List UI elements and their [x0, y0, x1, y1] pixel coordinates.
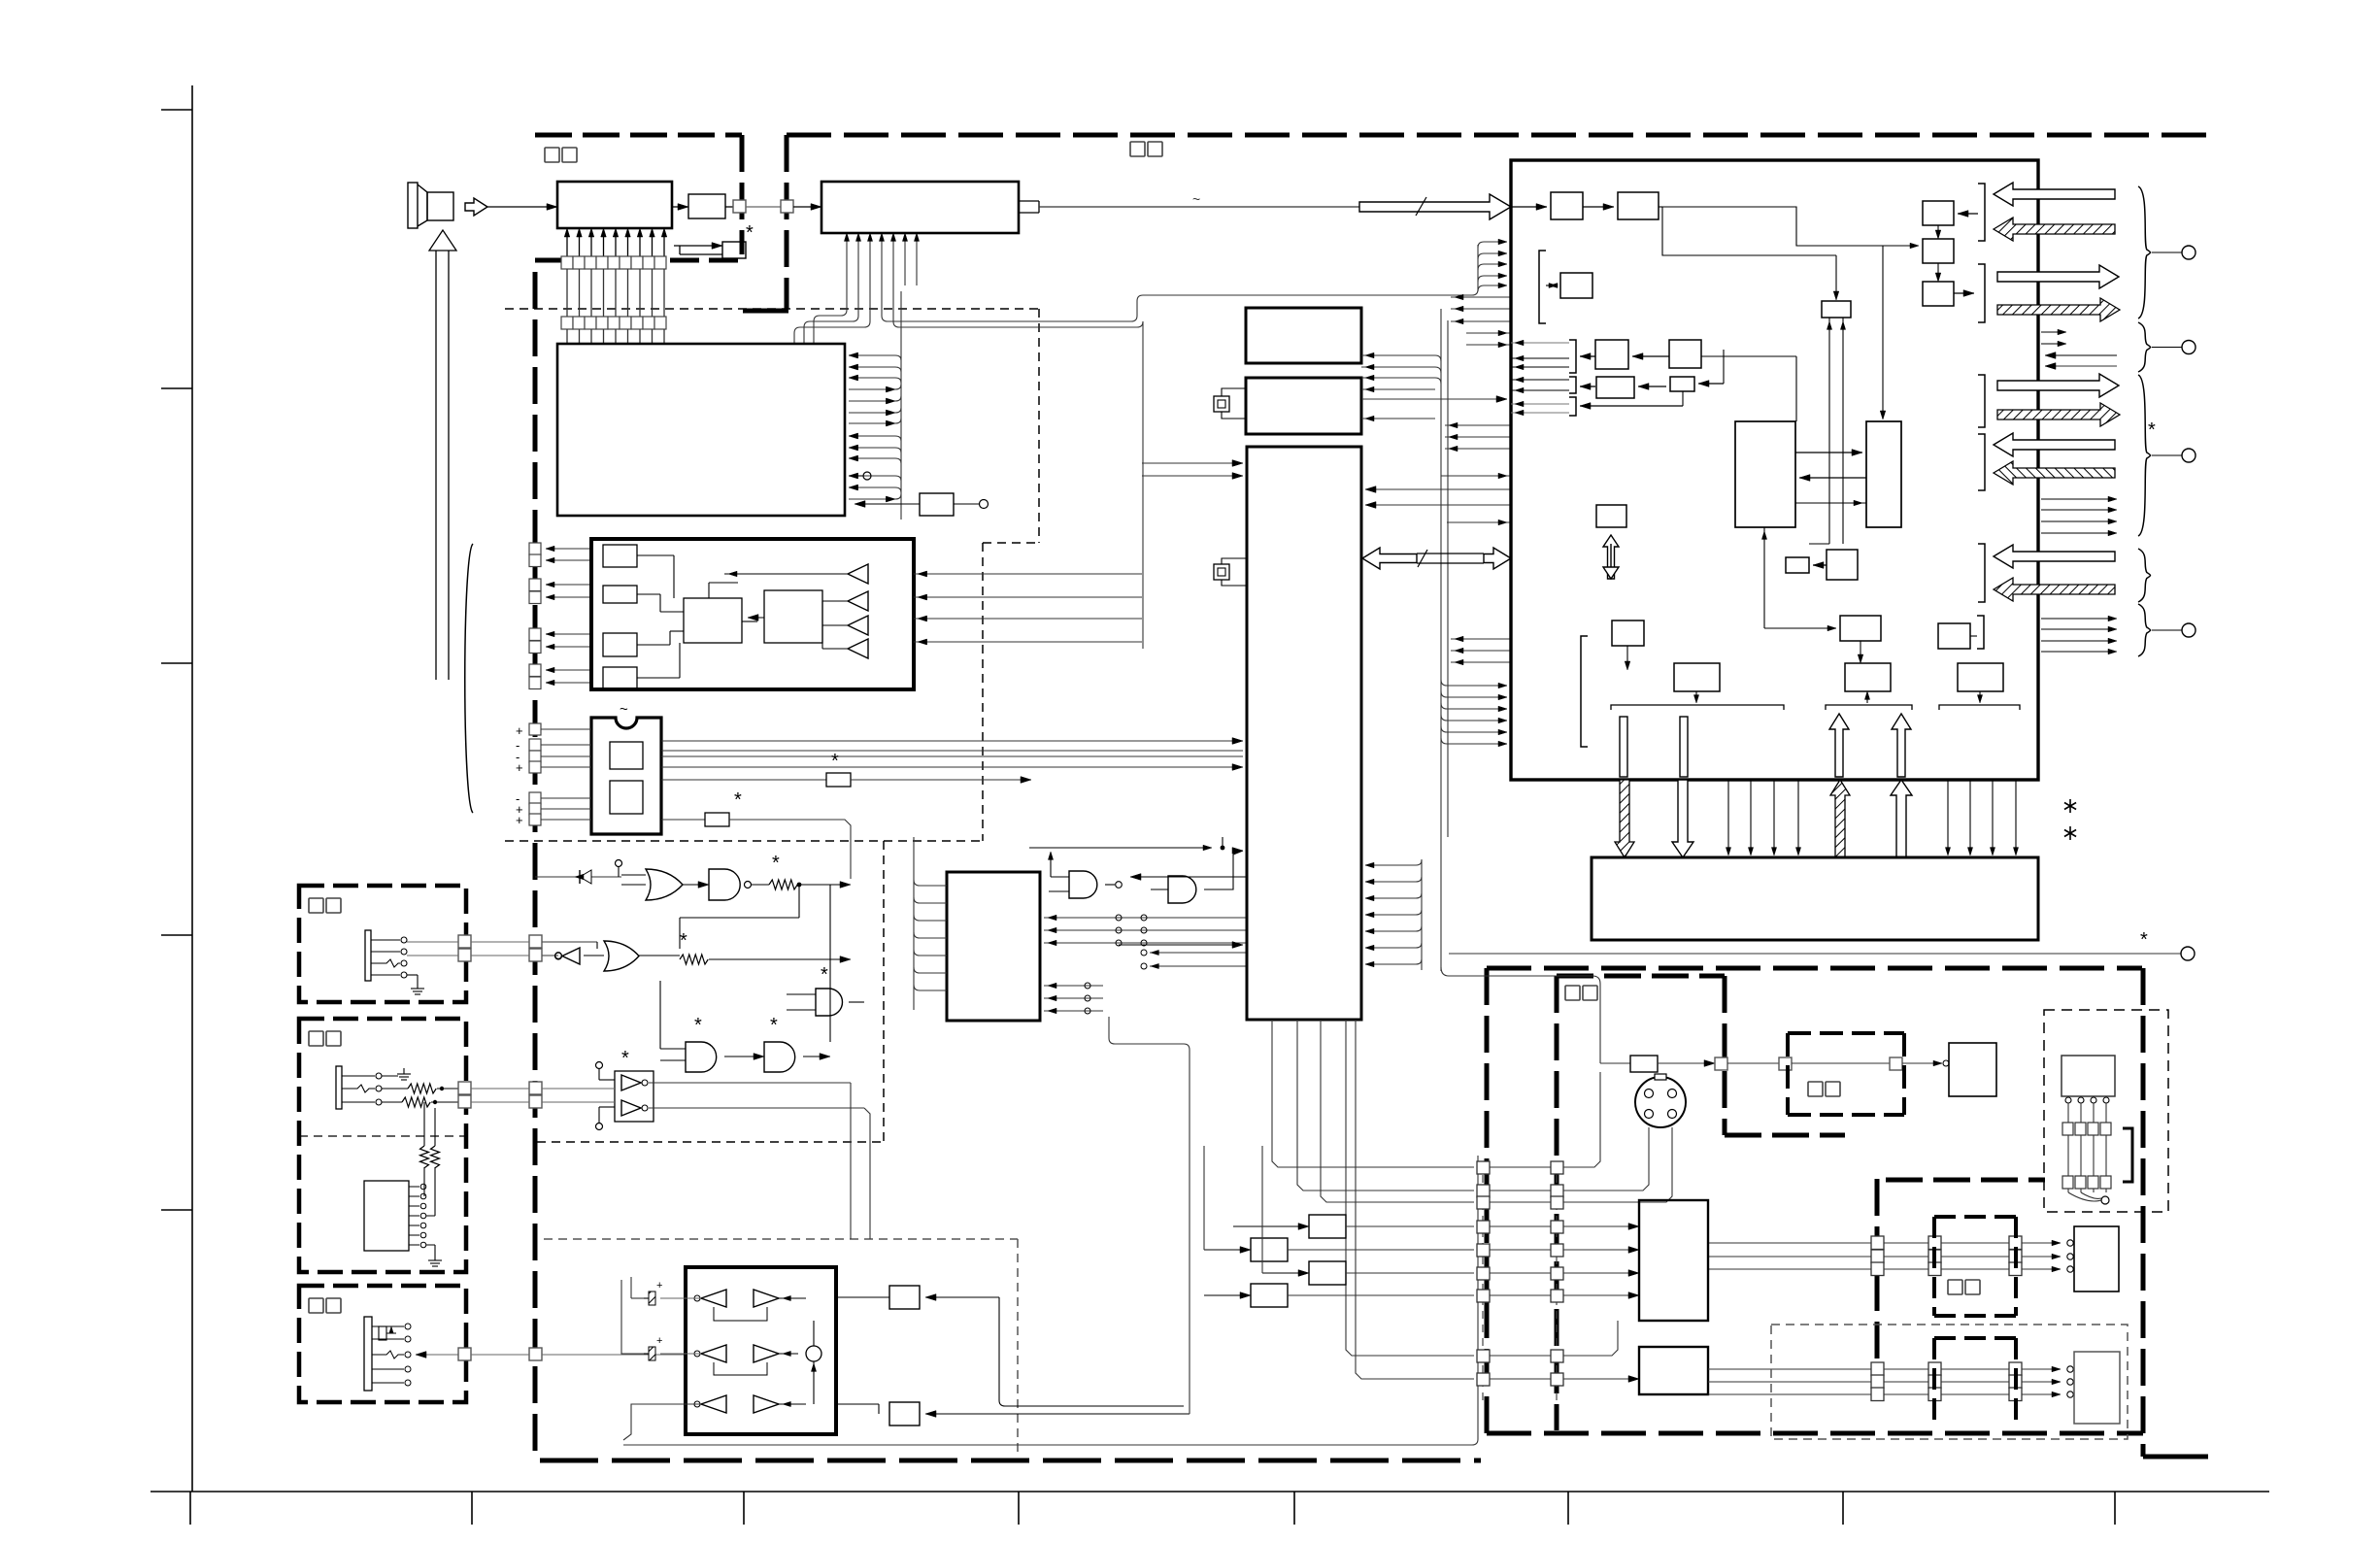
amp stage 1 [694, 1290, 806, 1321]
audio to DV wires [1204, 1146, 1262, 1273]
diode D1 [535, 870, 621, 884]
trap box [1670, 350, 1724, 406]
AV cable wires upper [1708, 1236, 2061, 1276]
connector CN10 [416, 1348, 686, 1360]
id box [1612, 621, 1644, 670]
label AV jack [309, 1031, 323, 1046]
DV in/out block [2067, 1226, 2119, 1291]
DV inner section boundary (dashed) [1557, 976, 2045, 1430]
monitor out wires [2041, 616, 2117, 654]
driver sub-box 3 [603, 633, 637, 656]
svg-text:*: * [694, 1015, 702, 1036]
audio in arrow [1994, 433, 2115, 456]
burst bracket [1511, 377, 1683, 416]
syscon auxiliary wires [1119, 874, 1247, 949]
servo sense wires from bus [914, 571, 1142, 645]
sync wires [1361, 386, 1507, 421]
IC5 EEPROM [591, 701, 661, 834]
S-terminal DIN connector [1635, 1074, 1686, 1127]
amp stage 2 [694, 1345, 798, 1375]
supply arrow up 2 [1892, 714, 1911, 777]
battery terminal block [2062, 1056, 2115, 1123]
CCD block boundary (dashed) [535, 135, 742, 260]
control box U1a [1923, 201, 1978, 239]
label DV section [1565, 986, 1580, 1000]
gate G9 AND [1126, 848, 1243, 903]
io bracket 2 [1978, 264, 1985, 322]
sync out wires [2041, 329, 2117, 369]
level shifter LS3 [1262, 1261, 1474, 1285]
battery sense wire [2068, 1128, 2132, 1204]
external monitor wire [1449, 929, 2195, 960]
encoder output wires [1361, 352, 1441, 384]
terminal group brace 2 [2138, 322, 2196, 372]
camera process dashed boundary [505, 309, 1039, 841]
video out arrow hatched [1997, 298, 2120, 321]
vco box [1669, 340, 1796, 421]
AV cable wires lower [1708, 1362, 2073, 1401]
pin slot 1 [1620, 717, 1627, 777]
memory bus hatched down arrow [1615, 780, 1634, 857]
gate G5 AND [660, 981, 764, 1072]
DV aux block [1639, 1347, 1708, 1394]
driver input buffer 1 [848, 564, 868, 584]
connector CN2 [781, 200, 793, 213]
resistor R6 [382, 1097, 458, 1107]
IC4 motor driver block [591, 539, 914, 689]
label mic jack [309, 898, 323, 913]
monitor block [1949, 1043, 1996, 1096]
camera control trunk lines [888, 239, 1507, 327]
gate G4 inverter [535, 948, 580, 964]
svg-text:~: ~ [1192, 191, 1200, 207]
input latch b1 [1511, 192, 1614, 219]
connector CN12 column [1551, 1161, 1563, 1403]
IC6a video encoder [1246, 308, 1361, 363]
terminal group brace 3 [2138, 375, 2196, 536]
IC8 audio DSP [947, 872, 1040, 1021]
audio dashed boundary [544, 1239, 1018, 1456]
memory bus open down arrow [1672, 780, 1693, 857]
memory bus open up arrow [1891, 780, 1912, 857]
osc box [1938, 616, 1984, 649]
latch M [1809, 301, 1851, 544]
resistor R4 [639, 930, 851, 986]
timing generator drive lines [794, 233, 920, 343]
mid connector boundary (dashed) [1934, 1217, 2016, 1316]
sync sep box [1595, 340, 1669, 369]
video in arrow [1994, 183, 2115, 206]
svg-text:~: ~ [620, 701, 628, 718]
connector CN15 [1890, 1057, 1902, 1070]
connector CN1 [733, 200, 746, 213]
mute switch ic [596, 1048, 871, 1239]
svg-text:+: + [516, 813, 523, 827]
resistor R3 [752, 853, 851, 889]
IC2 timing generator [821, 182, 1019, 233]
CN11-CN12 wires [1490, 1167, 1551, 1379]
camera DSP signal fan [849, 352, 901, 502]
io bracket 1 [1978, 184, 1985, 241]
crystal X2 [1214, 558, 1247, 586]
svg-text:*: * [734, 789, 742, 811]
connector CN14 [1779, 1057, 1792, 1070]
wire aux to cable [1707, 1368, 1709, 1370]
terminal group brace 5 [2138, 604, 2196, 656]
pull-up terminal [616, 860, 622, 878]
wires CN5 to driver [546, 546, 591, 686]
wire G2 feedback [680, 885, 830, 1042]
wire [1727, 1062, 1779, 1064]
host bus bidirectional arrow [1362, 548, 1511, 569]
connector CN13 [1715, 1057, 1727, 1070]
wire [746, 206, 781, 208]
power rail 2 [1826, 705, 1912, 710]
DIN wires [1563, 1127, 1672, 1202]
lens assembly [408, 183, 453, 228]
memory ctl arrows down 2 [1945, 780, 2018, 855]
digital in arrow hatched [1994, 578, 2115, 601]
wire to vertical driver [674, 243, 722, 254]
amp stage 3 [694, 1395, 806, 1413]
status out wires [2041, 496, 2117, 536]
pin slot 2 [1680, 717, 1688, 777]
IC7 DV signal processor [1511, 160, 2038, 780]
light input block arrow [465, 198, 487, 216]
resistor R2 [661, 789, 851, 879]
connector CN17 row [2062, 1135, 2111, 1189]
left io bracket [1581, 636, 1588, 747]
svg-text:*: * [831, 751, 839, 772]
power block 2 [1845, 663, 1891, 703]
gate G7 AND [787, 989, 864, 1016]
DV center block [1639, 1200, 1708, 1321]
audio bus to DV [1109, 1017, 1190, 1414]
audio DSP right-side wires [1044, 915, 1247, 1014]
connector CN9 block [364, 1167, 442, 1266]
DV out boundary (light dashed) [1771, 1325, 2128, 1439]
power rail 1 [1611, 705, 1784, 710]
wire CCD out [672, 206, 688, 208]
io bracket 4 [1978, 434, 1985, 490]
label camera section [1130, 142, 1145, 156]
bus wires to DV section [1441, 967, 1630, 1063]
driver input buffer 3 [848, 616, 868, 635]
main board left boundary (dashed) [533, 272, 538, 1456]
EEPROM cell box 1 [610, 742, 643, 769]
video out arrow [1997, 265, 2119, 288]
small box k2 [1827, 550, 1858, 580]
small box k1 [1786, 557, 1827, 573]
data path T2 [1866, 421, 1901, 527]
coupling capacitor C2 [644, 1335, 701, 1360]
wires bus to syscon [1142, 460, 1243, 480]
control box U1b [1923, 239, 1954, 282]
lower connector boundary (dashed) [1934, 1338, 2016, 1427]
svg-text:*: * [772, 853, 780, 874]
svg-text:*: * [621, 1048, 629, 1069]
CN6 polarity labels [516, 723, 523, 827]
wire to timing generator [793, 206, 821, 208]
serial bus wires to syscon [661, 738, 1243, 771]
IC6 system controller [1247, 447, 1361, 1020]
wires CN6 to EEPROM [541, 729, 591, 820]
driver sub-box 2 [603, 586, 637, 603]
input latch b2 [1618, 192, 1662, 219]
svg-text:*: * [2148, 419, 2156, 441]
bus CN4 to camera DSP [567, 329, 664, 344]
memory controller T1 [1735, 421, 1795, 527]
IC3 camera process DSP [557, 344, 845, 516]
amp mixer [806, 1321, 836, 1404]
supply arrow up 1 [1829, 714, 1849, 777]
video in arrow hatched [1994, 218, 2115, 241]
power block 1 [1674, 663, 1720, 703]
connector CN3 strip [561, 256, 666, 269]
AV out boundary (dashed) [1788, 1033, 1904, 1115]
gate G8 AND [1029, 837, 1247, 898]
label CCD section [545, 148, 559, 162]
DV section boundary (dashed) [1487, 968, 2208, 1457]
control box U1c [1923, 282, 1974, 306]
memory bus hatched up arrow [1830, 780, 1850, 857]
driver sub-box 4 [603, 667, 637, 689]
svg-text:+: + [656, 1280, 662, 1291]
system bus vertical [1440, 309, 1442, 971]
gate G3 OR [535, 941, 639, 971]
microphone jack box (dashed) [299, 886, 466, 1002]
svg-text:+: + [516, 760, 523, 775]
wire lens to CCD [487, 206, 557, 208]
connector CN16 row [2062, 1123, 2111, 1135]
amp output boxes [836, 1286, 1190, 1426]
svg-text:*: * [2140, 929, 2148, 951]
svg-text:*: * [680, 930, 687, 952]
io bracket 3 [1978, 375, 1985, 427]
camera DSP feedback bus [901, 291, 1143, 649]
resistor R7 vertical [420, 1102, 429, 1168]
memory ctl arrows down [1726, 780, 1800, 855]
amp input routing [619, 1277, 701, 1440]
driver logic box A [684, 598, 742, 643]
bus CN3 to CN4 [567, 269, 664, 317]
clock box [1761, 527, 1881, 663]
component out arrow hatched [1997, 403, 2120, 426]
svg-text:*: * [821, 964, 828, 986]
audio in arrow hatched [1994, 461, 2115, 485]
video out buffer box [1630, 1056, 1715, 1072]
resistor R8 vertical [431, 1108, 440, 1168]
svg-text:+: + [656, 1335, 662, 1347]
status bracket [1539, 251, 1558, 323]
sync sep bracket [1511, 340, 1595, 373]
J2 divider (dashed) [299, 1135, 466, 1137]
terminal group brace 1 [2138, 186, 2196, 319]
audio section bottom boundary (dashed) [540, 1459, 1481, 1463]
IC9 audio amplifier [686, 1267, 836, 1434]
driver internal wires [637, 555, 848, 678]
syscon bottom wires [1272, 1020, 1474, 1379]
crystal X1 [1214, 388, 1246, 419]
camera section boundary (dashed) [743, 135, 2213, 311]
driver logic box B [764, 590, 822, 643]
burst box [1596, 377, 1666, 398]
audio return wire [620, 1156, 1478, 1445]
timing bus out [1019, 191, 1359, 213]
resistor R1 [661, 751, 1031, 787]
hold box [1596, 505, 1626, 579]
wire [725, 206, 733, 208]
connector CN4 strip [561, 317, 666, 329]
test point wire [849, 472, 871, 480]
level shifter LS1 [1233, 1215, 1474, 1238]
wire [1792, 1062, 1890, 1064]
connector CN8 [458, 1082, 615, 1108]
EEPROM cell box 2 [610, 781, 643, 814]
label mid connector [1948, 1280, 1962, 1294]
AV jack J2 [336, 1066, 411, 1109]
AV jack box (dashed) [299, 1019, 466, 1272]
mechacon dashed boundary [537, 841, 884, 1142]
sync box [855, 493, 989, 516]
connector CN7 [407, 935, 597, 961]
footnote stars [2064, 799, 2076, 840]
digital in arrow [1994, 545, 2115, 568]
T1-T2 wires [1795, 450, 1866, 506]
syscon right fan [1365, 859, 1422, 970]
level shifter LS4 [1204, 1284, 1474, 1307]
power block 3 [1958, 663, 2003, 703]
connector CN11 column [1477, 1161, 1490, 1403]
servo bracket [465, 544, 473, 813]
gate G1 NOR [621, 869, 683, 900]
wire to monitor block [1902, 1060, 1949, 1066]
connector CN5 pins [529, 543, 541, 689]
wires CN12 onward [1563, 1072, 1639, 1382]
headphone jack box (dashed) [299, 1286, 466, 1402]
optical path arrow (vertical) [429, 230, 456, 680]
driver input buffer 4 [848, 639, 868, 658]
vertical driver box [722, 242, 746, 258]
syscon to DV codec wires [1365, 294, 1511, 747]
IC10 memory [1592, 857, 2038, 940]
gate G2 NAND [683, 869, 752, 900]
label phone jack [309, 1298, 323, 1313]
io bracket 5 [1978, 544, 1985, 602]
sample-hold box [688, 194, 725, 218]
IC1 CCD image sensor [557, 182, 672, 228]
CCD drive bus arrows [564, 228, 667, 256]
IC6b sync generator [1246, 378, 1361, 434]
battery terminal boundary (thin dashed) [2044, 1010, 2168, 1212]
video bus arrow to DV codec [1359, 194, 1511, 219]
headphone jack J3 [364, 1317, 411, 1391]
component out arrow [1997, 374, 2119, 397]
driver input buffer 2 [848, 591, 868, 611]
svg-text:*: * [770, 1015, 778, 1036]
gate G6 AND [764, 1015, 830, 1072]
microphone jack J1 [365, 930, 424, 994]
power rail 3 [1939, 705, 2020, 710]
svg-text:+: + [516, 723, 523, 738]
internal bus wires [1662, 207, 1919, 419]
coupling capacitor C1 [644, 1280, 701, 1305]
terminal group brace 4 [2138, 549, 2151, 602]
label AV out [1808, 1082, 1823, 1096]
driver sub-box 1 [603, 545, 637, 567]
status box [1560, 273, 1592, 298]
connector CN6 pins [529, 723, 541, 825]
system bus vertical 2 [1447, 320, 1449, 837]
svg-text:*: * [746, 222, 754, 244]
audio DSP input bus [914, 837, 947, 1010]
level shifter LS2 [1204, 1238, 1474, 1261]
DV out block [2074, 1352, 2120, 1424]
resistor R5 [382, 1084, 458, 1093]
